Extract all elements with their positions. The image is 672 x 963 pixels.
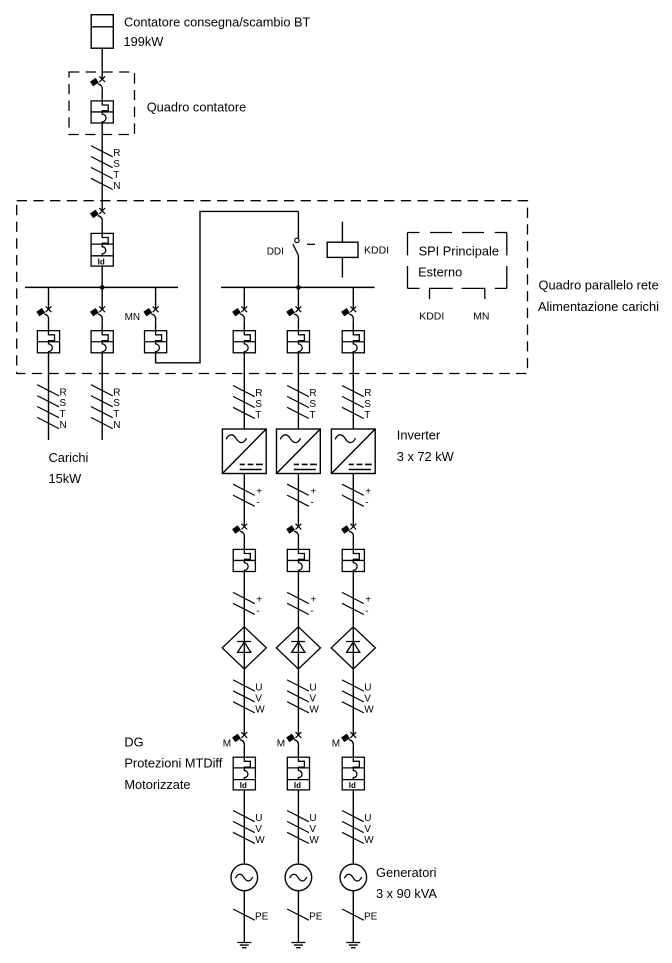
svg-text:3 x 72 kW: 3 x 72 kW (397, 449, 455, 464)
svg-text:T: T (113, 409, 119, 420)
svg-text:PE: PE (364, 912, 378, 923)
svg-text:Motorizzate: Motorizzate (124, 777, 190, 792)
svg-text:-: - (310, 498, 313, 509)
svg-text:S: S (60, 398, 67, 409)
svg-text:W: W (364, 704, 374, 715)
svg-text:M: M (332, 739, 340, 750)
svg-text:W: W (255, 704, 265, 715)
svg-text:199kW: 199kW (124, 34, 165, 49)
svg-text:Carichi: Carichi (49, 450, 89, 465)
svg-text:T: T (113, 170, 119, 181)
svg-text:Quadro parallelo rete: Quadro parallelo rete (539, 277, 659, 292)
svg-text:Inverter: Inverter (397, 428, 441, 443)
svg-text:DG: DG (124, 735, 143, 750)
svg-text:PE: PE (309, 912, 323, 923)
svg-text:+: + (256, 486, 262, 497)
svg-text:-: - (256, 498, 259, 509)
svg-text:U: U (309, 813, 316, 824)
svg-text:R: R (309, 388, 316, 399)
svg-text:W: W (255, 835, 265, 846)
svg-text:R: R (113, 387, 120, 398)
svg-text:U: U (364, 683, 371, 694)
svg-text:T: T (364, 410, 370, 421)
svg-text:T: T (309, 410, 315, 421)
svg-text:V: V (309, 824, 316, 835)
svg-text:U: U (364, 813, 371, 824)
svg-text:R: R (113, 148, 120, 159)
svg-text:N: N (113, 420, 120, 431)
svg-text:Alimentazione carichi: Alimentazione carichi (538, 299, 659, 314)
svg-text:W: W (309, 704, 319, 715)
svg-text:MN: MN (125, 312, 141, 323)
svg-text:V: V (364, 824, 371, 835)
svg-text:R: R (364, 388, 371, 399)
svg-text:S: S (113, 398, 120, 409)
svg-text:Esterno: Esterno (418, 264, 462, 279)
svg-text:3 x 90 kVA: 3 x 90 kVA (376, 886, 437, 901)
svg-text:W: W (309, 835, 319, 846)
svg-text:PE: PE (255, 912, 269, 923)
svg-text:+: + (310, 595, 316, 606)
svg-text:Protezioni MTDiff: Protezioni MTDiff (124, 755, 222, 770)
svg-text:KDDI: KDDI (364, 245, 389, 257)
svg-text:S: S (255, 399, 262, 410)
svg-text:DDI: DDI (267, 247, 284, 258)
svg-text:-: - (365, 498, 368, 509)
svg-text:MN: MN (473, 310, 489, 322)
svg-text:T: T (60, 409, 66, 420)
svg-text:+: + (365, 486, 371, 497)
svg-text:Contatore consegna/scambio BT: Contatore consegna/scambio BT (124, 15, 311, 30)
svg-text:Quadro contatore: Quadro contatore (147, 100, 247, 115)
svg-text:S: S (113, 159, 120, 170)
svg-text:+: + (365, 595, 371, 606)
svg-text:M: M (223, 739, 231, 750)
svg-text:SPI Principale: SPI Principale (419, 243, 499, 258)
svg-text:KDDI: KDDI (419, 310, 444, 322)
svg-text:Generatori: Generatori (376, 865, 436, 880)
svg-text:+: + (310, 486, 316, 497)
svg-text:+: + (256, 595, 262, 606)
svg-text:V: V (364, 693, 371, 704)
svg-text:U: U (309, 683, 316, 694)
svg-text:U: U (255, 683, 262, 694)
svg-text:-: - (365, 606, 368, 617)
svg-text:U: U (255, 813, 262, 824)
svg-text:N: N (113, 181, 120, 192)
svg-text:V: V (255, 824, 262, 835)
svg-text:V: V (309, 693, 316, 704)
svg-text:R: R (255, 388, 262, 399)
svg-text:M: M (277, 739, 285, 750)
svg-text:W: W (364, 835, 374, 846)
svg-text:R: R (60, 387, 67, 398)
svg-text:-: - (310, 606, 313, 617)
svg-text:S: S (309, 399, 316, 410)
svg-text:N: N (60, 420, 67, 431)
svg-text:15kW: 15kW (49, 471, 83, 486)
svg-text:V: V (255, 693, 262, 704)
svg-text:S: S (364, 399, 371, 410)
svg-text:-: - (256, 606, 259, 617)
svg-text:T: T (255, 410, 261, 421)
